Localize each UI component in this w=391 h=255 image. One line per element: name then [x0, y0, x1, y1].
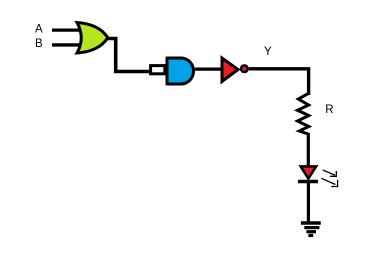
- wire input B: [52, 43, 81, 46]
- not-gate U3 triangle: [222, 58, 238, 82]
- LED D1 cathode bar: [298, 180, 318, 183]
- LED light arrow 2 shaft: [321, 178, 335, 184]
- wire resistor to LED: [307, 133, 310, 168]
- LED light arrow 1 shaft: [323, 170, 335, 175]
- svg-text:A: A: [35, 24, 43, 36]
- wire Y to resistor (elbow): [249, 69, 309, 95]
- wire input A: [52, 29, 81, 32]
- LED light arrow 2 head: [331, 180, 337, 187]
- ground bar 1: [301, 221, 321, 224]
- connector box on AND input: [151, 66, 165, 74]
- LED light arrow 1 head: [330, 171, 336, 176]
- svg-text:Y: Y: [264, 46, 272, 58]
- wire LED to ground: [307, 183, 310, 222]
- LED D1 triangle: [301, 166, 316, 178]
- svg-text:R: R: [325, 104, 333, 116]
- wire OR output to AND input (elbow): [108, 39, 150, 72]
- ground bar 4: [308, 234, 313, 237]
- ground bar 3: [306, 230, 316, 233]
- resistor R zigzag: [298, 94, 309, 135]
- not-gate U3 output bubble: [241, 65, 248, 72]
- svg-text:B: B: [35, 38, 43, 50]
- or-gate U1: [77, 23, 108, 54]
- ground bar 2: [304, 226, 319, 229]
- wire AND output to NOT input: [195, 67, 222, 70]
- and-gate U2: [167, 58, 194, 84]
